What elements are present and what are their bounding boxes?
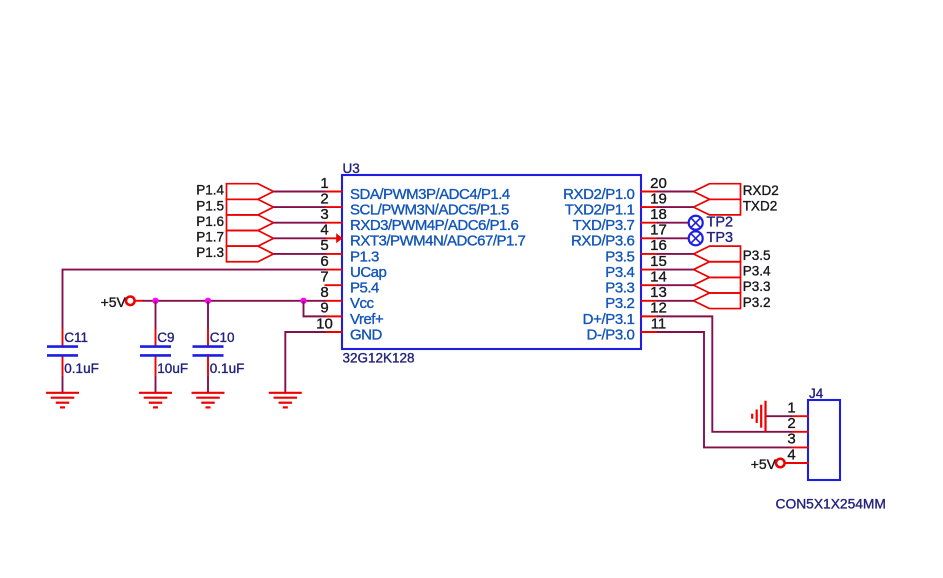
svg-text:18: 18	[650, 206, 667, 223]
svg-text:14: 14	[650, 268, 667, 285]
wire C10 to ground	[207, 376, 209, 394]
U3 pin 9 stub	[325, 315, 343, 317]
U3 pin 1 stub	[325, 191, 343, 193]
svg-text:11: 11	[651, 315, 667, 332]
svg-text:P3.2: P3.2	[605, 295, 634, 312]
svg-text:2: 2	[320, 190, 328, 207]
J4 pin 1 stub	[792, 415, 810, 417]
port P1.5	[227, 199, 274, 215]
svg-text:P1.6: P1.6	[196, 214, 224, 229]
svg-text:P3.3: P3.3	[743, 279, 771, 294]
svg-text:RXD/P3.6: RXD/P3.6	[571, 233, 635, 250]
port RXD2	[694, 184, 741, 200]
svg-text:13: 13	[650, 284, 667, 301]
wire C9 to ground	[155, 376, 157, 394]
svg-text:9: 9	[320, 300, 328, 317]
svg-text:19: 19	[650, 190, 667, 207]
U3 pin 4 stub	[325, 237, 343, 239]
svg-text:TXD/P3.7: TXD/P3.7	[573, 217, 635, 234]
power +5V circle at J4	[776, 459, 785, 468]
port TXD2	[694, 199, 741, 215]
port P1.3	[227, 246, 274, 262]
wire J4 pin1 to ground	[766, 415, 792, 417]
wire D-/P3.0 pin11 to J4 pin3	[657, 332, 792, 447]
svg-text:CON5X1X254MM: CON5X1X254MM	[776, 496, 886, 511]
U3 pin 19 stub	[641, 206, 659, 208]
svg-text:GND: GND	[350, 326, 383, 343]
wire pin 19 to TXD2	[657, 206, 694, 208]
svg-text:UCap: UCap	[350, 264, 387, 281]
svg-text:P1.3: P1.3	[196, 245, 224, 260]
U3 pin 16 stub	[641, 253, 659, 255]
port P3.4	[694, 262, 741, 278]
wire pin6 UCap to C11	[63, 270, 326, 330]
svg-text:3: 3	[787, 431, 795, 448]
U3 pin 6 stub	[325, 269, 343, 271]
IC U3 body	[342, 175, 641, 349]
svg-text:10: 10	[316, 315, 333, 332]
svg-text:P3.4: P3.4	[743, 264, 771, 279]
port P3.5	[694, 246, 741, 262]
svg-text:P1.3: P1.3	[350, 248, 379, 265]
wire pin 13 to P3.2	[657, 300, 694, 302]
svg-text:TP2: TP2	[707, 215, 734, 231]
wire pin 17 to TP3	[657, 237, 689, 239]
svg-text:3: 3	[320, 206, 328, 223]
svg-text:6: 6	[320, 253, 328, 270]
power +5V circle left	[126, 296, 135, 305]
svg-text:16: 16	[650, 237, 667, 254]
wire rail to C9	[155, 301, 157, 329]
U3 pin 17 stub	[641, 237, 659, 239]
svg-text:P1.5: P1.5	[196, 198, 224, 213]
svg-text:C10: C10	[210, 330, 235, 345]
capacitor C9	[140, 329, 171, 376]
svg-text:RXD2/P1.0: RXD2/P1.0	[563, 186, 634, 203]
U3 pin 10 stub	[325, 331, 343, 333]
svg-text:U3: U3	[343, 161, 360, 176]
svg-text:2: 2	[787, 415, 795, 432]
connector J4 body	[808, 400, 840, 480]
U3 pin 20 stub	[641, 191, 659, 193]
wire +5V rail to pin8 Vcc	[143, 300, 326, 302]
wire pin 14 to P3.3	[657, 284, 694, 286]
U3 pin 12 stub	[641, 315, 659, 317]
ground at U3 GND	[269, 393, 302, 408]
svg-text:RXD2: RXD2	[743, 183, 779, 198]
wire jog to pin9 Vref+	[304, 301, 326, 317]
svg-text:P5.4: P5.4	[350, 280, 379, 297]
wire P1.5 to pin 2	[274, 206, 326, 208]
capacitor C10	[193, 329, 224, 376]
junction dot Vref jog	[300, 298, 306, 304]
svg-text:SDA/PWM3P/ADC4/P1.4: SDA/PWM3P/ADC4/P1.4	[350, 186, 510, 203]
wire rail to C10	[207, 301, 209, 329]
+5V stub to J4 pin4	[784, 462, 809, 464]
svg-text:1: 1	[320, 175, 328, 192]
wire pin 20 to RXD2	[657, 191, 694, 193]
ground under C9	[139, 393, 172, 408]
svg-text:0.1uF: 0.1uF	[210, 361, 245, 376]
svg-text:15: 15	[650, 253, 667, 270]
port P3.3	[694, 277, 741, 293]
svg-text:C9: C9	[157, 330, 174, 345]
U3 pin 18 stub	[641, 222, 659, 224]
port P1.7	[227, 231, 274, 247]
U3 pin 7 stub	[325, 284, 343, 286]
U3 pin 13 stub	[641, 300, 659, 302]
junction dot C10	[205, 298, 211, 304]
testpoint TP2	[689, 216, 703, 230]
svg-text:SCL/PWM3N/ADC5/P1.5: SCL/PWM3N/ADC5/P1.5	[350, 202, 509, 219]
svg-text:+5V: +5V	[101, 294, 127, 310]
+5V pin stub	[134, 300, 143, 302]
wire P1.6 to pin 3	[274, 222, 326, 224]
U3 pin 15 stub	[641, 269, 659, 271]
ground under C10	[192, 393, 225, 408]
svg-text:P3.5: P3.5	[743, 248, 771, 263]
svg-text:TXD2/P1.1: TXD2/P1.1	[565, 202, 635, 219]
svg-text:4: 4	[320, 222, 328, 239]
svg-text:P1.4: P1.4	[196, 183, 224, 198]
wire D+/P3.1 pin12 to J4 pin2	[657, 316, 792, 431]
wire P1.3 to pin 5	[274, 253, 326, 255]
wire C11 to ground	[62, 376, 64, 394]
svg-text:D+/P3.1: D+/P3.1	[583, 311, 635, 328]
svg-text:20: 20	[650, 175, 667, 192]
J4 pin 3 stub	[792, 446, 810, 448]
svg-text:32G12K128: 32G12K128	[343, 351, 415, 366]
svg-text:RXT3/PWM4N/ADC67/P1.7: RXT3/PWM4N/ADC67/P1.7	[350, 233, 526, 250]
svg-text:10uF: 10uF	[157, 361, 188, 376]
U3 pin 11 stub	[641, 331, 659, 333]
port P1.4	[227, 184, 274, 200]
U3 pin 14 stub	[641, 284, 659, 286]
svg-text:RXD3/PWM4P/ADC6/P1.6: RXD3/PWM4P/ADC6/P1.6	[350, 217, 519, 234]
svg-text:0.1uF: 0.1uF	[64, 361, 99, 376]
wire pin 16 to P3.5	[657, 253, 694, 255]
wire pin 18 to TP2	[657, 222, 689, 224]
ground at J4 pin1 (rotated)	[752, 401, 765, 432]
junction dot C9	[152, 298, 158, 304]
port P1.6	[227, 215, 274, 231]
U3 pin 5 stub	[325, 253, 343, 255]
wire P1.4 to pin 1	[274, 191, 326, 193]
svg-text:Vcc: Vcc	[350, 295, 375, 312]
svg-text:4: 4	[787, 446, 795, 463]
svg-text:8: 8	[320, 284, 328, 301]
svg-text:+5V: +5V	[751, 456, 777, 472]
testpoint TP3	[689, 231, 703, 245]
svg-text:12: 12	[650, 300, 667, 317]
capacitor C11	[47, 329, 78, 376]
svg-text:Vref+: Vref+	[350, 311, 384, 328]
svg-text:C11: C11	[64, 330, 88, 345]
svg-text:P1.7: P1.7	[196, 230, 224, 245]
wire pin 15 to P3.4	[657, 269, 694, 271]
svg-text:1: 1	[787, 400, 795, 417]
U3 pin 8 stub	[325, 300, 343, 302]
svg-text:7: 7	[320, 268, 328, 285]
J4 pin 2 stub	[792, 431, 810, 433]
svg-text:D-/P3.0: D-/P3.0	[586, 326, 634, 343]
J4 pin 4 stub	[792, 462, 810, 464]
svg-text:P3.4: P3.4	[605, 264, 634, 281]
pin 4 direction arrow	[336, 233, 342, 243]
svg-text:P3.5: P3.5	[605, 248, 634, 265]
svg-text:J4: J4	[809, 386, 824, 401]
svg-text:TP3: TP3	[707, 230, 734, 246]
svg-text:5: 5	[320, 237, 328, 254]
wire pin10 GND to ground	[285, 332, 325, 394]
svg-text:P3.2: P3.2	[743, 295, 771, 310]
svg-text:P3.3: P3.3	[605, 280, 634, 297]
U3 pin 2 stub	[325, 206, 343, 208]
ground under C11	[46, 393, 79, 408]
svg-text:17: 17	[650, 222, 667, 239]
port P3.2	[694, 293, 741, 309]
svg-text:TXD2: TXD2	[743, 198, 778, 213]
wire P1.7 to pin 4	[274, 237, 326, 239]
U3 pin 3 stub	[325, 222, 343, 224]
